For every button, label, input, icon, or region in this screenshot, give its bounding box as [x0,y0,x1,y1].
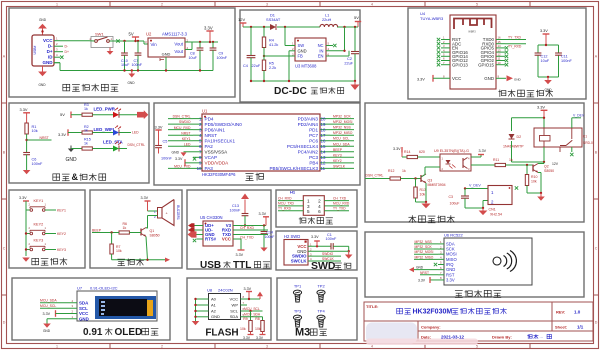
svg-text:3.3V: 3.3V [311,235,319,239]
svg-text:IN: IN [319,48,323,53]
svg-text:K1: K1 [583,135,587,139]
svg-text:MP32_MOSI: MP32_MOSI [415,250,434,254]
svg-text:...: ... [540,334,543,339]
power 3.3V usb-ttl [259,212,270,226]
svg-text:100nF: 100nF [326,237,337,241]
optocoupler U9 EL357N [434,149,471,171]
svg-text:10k: 10k [32,129,38,133]
ground arrow flash [192,321,200,325]
power port arrow 5V_DEV [137,110,148,119]
svg-text:U7: U7 [77,286,83,291]
test point TP2 [317,284,326,302]
wire R14 to opto [418,156,441,158]
svg-text:SDA: SDA [230,314,239,319]
svg-text:MP32_MISO: MP32_MISO [415,255,434,259]
net label DSN_CTRL [119,143,145,149]
power 5V output [354,15,361,27]
svg-text:HK32F030MF4P6: HK32F030MF4P6 [202,172,236,177]
svg-text:M3: M3 [295,326,310,338]
power 3.3V U5 VCC [233,239,245,257]
svg-text:SWCLK: SWCLK [291,259,308,264]
svg-text:VSS/VSSA: VSS/VSSA [205,149,229,154]
svg-text:SWDIO: SWDIO [179,120,191,124]
key input box [9,190,85,268]
reset & led box [9,103,149,183]
wire V3 rail [233,224,266,226]
svg-text:3.3V: 3.3V [43,312,51,316]
svg-text:H1: H1 [290,190,296,195]
power 3.3V buzzer [141,196,151,201]
header H1 [290,190,324,216]
svg-text:R8: R8 [255,317,260,321]
svg-text:LED_WIFI: LED_WIFI [94,127,115,132]
svg-text:100uF: 100uF [450,202,460,206]
svg-text:6: 6 [318,209,321,214]
svg-text:5V: 5V [60,112,65,117]
net label MP32_MOSI from U1 pin 19 [330,120,354,124]
capacitor C7 [132,41,143,71]
svg-text:DSN_CTRL: DSN_CTRL [128,143,146,147]
svg-text:MCU_TXD: MCU_TXD [278,202,295,206]
wire Q1 collector [146,227,148,230]
svg-text:R10: R10 [531,175,537,179]
svg-text:3.3V: 3.3V [537,105,545,110]
svg-text:GND: GND [43,60,54,65]
caption tuya module [498,90,553,97]
svg-text:D+: D+ [47,49,53,54]
svg-text:1k: 1k [402,169,406,173]
svg-text:TY_RXD: TY_RXD [278,206,292,210]
swd box [276,231,357,270]
net label CH_TXD [233,235,268,240]
svg-text:A0: A0 [211,296,217,301]
ground rail buzzer [112,237,165,261]
svg-text:KEY1: KEY1 [182,137,191,141]
svg-text:10k: 10k [255,327,261,331]
led row2 power 3.3V [58,129,82,137]
svg-text:AMS1117-3.3: AMS1117-3.3 [162,32,188,37]
no-connect X on VCAP [193,157,196,160]
inductor L1 22uH [320,13,338,28]
ground port U5 GND pin [188,231,204,237]
net label MCU_SCL oled [40,304,77,308]
chip U4 body [450,15,496,89]
svg-text:GND: GND [162,52,171,57]
svg-text:2: 2 [318,199,321,204]
svg-text:10uF: 10uF [121,63,130,67]
net label SWCLK swd [308,257,341,261]
svg-text:WP: WP [232,302,239,307]
U4 right pins [478,36,508,81]
test point TP1 [293,284,302,302]
ground under C14 [260,248,267,252]
net label CH_TXD right [324,196,349,200]
net label TY_TXD right [324,206,349,210]
svg-text:22uF: 22uF [252,64,261,68]
power 3.3V reset [20,107,31,123]
ground arrow dcdc [350,81,359,90]
title block frame [364,302,593,341]
ground under C6 [23,170,31,174]
net label MCU_RXD right [324,202,350,206]
svg-text:Q1: Q1 [150,229,155,233]
port D- label [65,45,69,49]
svg-text:MP32_SCK: MP32_SCK [333,115,351,119]
net label SWDIO to U1 pin 2 [168,120,193,124]
power 3.3V to VCC pin [417,75,450,82]
net label MCU_SCL from U1 pin 16 [330,137,354,141]
date row [421,334,552,340]
svg-text:100nF: 100nF [561,59,572,63]
caption buzzer [117,258,143,265]
svg-text:3.3V: 3.3V [540,29,548,33]
svg-text:3.3V: 3.3V [256,336,264,340]
svg-text:3.3V: 3.3V [393,147,401,151]
junction dots on 5V rail [123,40,139,42]
ground keys [22,258,30,262]
svg-text:LED: LED [132,131,139,135]
relay K1 SRD-03 [534,128,593,152]
svg-text:USB: USB [200,260,221,271]
12V rail wire [243,26,355,28]
power switch circuit box [9,8,235,97]
net label MP32_MOSI card reader [414,250,438,254]
svg-text:SW: SW [298,43,305,48]
caption power switch circuit [63,84,119,92]
svg-text:LED_PWR: LED_PWR [94,106,116,111]
caption DC-DC boost [274,86,344,97]
svg-text:100nF: 100nF [265,235,275,239]
capacitor C3 100uF [449,189,470,209]
svg-text:5V: 5V [354,15,359,20]
wire U2 Vout join [185,42,218,50]
svg-text:1N4148WTP: 1N4148WTP [503,145,524,149]
capacitor C1 100nF [326,233,350,253]
bottom ground rail dcdc [250,80,356,82]
svg-text:NC: NC [318,43,324,48]
net label MP32_NSS from U1 pin 18 [330,126,354,130]
diode D1 SS34AT [266,13,281,31]
net label MCU_RXD to U1 pin 3 [168,126,193,130]
caption reset and indicator [53,172,107,182]
net label KEY2 [57,232,66,236]
svg-text:D-: D- [65,45,69,49]
svg-text:3: 3 [266,2,268,6]
svg-text:TP4: TP4 [317,309,325,314]
power 3.3V cap pair [540,29,549,45]
wire R12 to Q3 base [401,177,422,179]
resistor R15 1k [82,138,92,150]
svg-text:V_DEV: V_DEV [573,114,585,118]
svg-text:3.3V: 3.3V [479,149,487,153]
svg-text:USB#: USB# [33,45,37,54]
svg-text:1: 1 [307,199,310,204]
power 5V [129,32,140,42]
module U7 OLED labels [77,286,118,291]
svg-text:HK32F030M: HK32F030M [413,309,453,316]
wire FB to divider [263,55,295,57]
net label LED_STA [103,139,124,144]
wire EN pin [326,50,349,56]
svg-text:620: 620 [419,150,425,154]
dc-dc boost circuit box [240,10,360,102]
svg-text:MCU_SCL: MCU_SCL [333,137,349,141]
svg-text:R7: R7 [116,245,121,249]
LED green LED_STA [113,142,121,152]
module U4 TUYA-WBR3 labels [420,11,444,21]
svg-text:MP32_NSS: MP32_NSS [333,126,351,130]
svg-text:C6: C6 [32,157,37,161]
svg-text:24C02N: 24C02N [218,288,233,293]
svg-text:GND: GND [39,18,47,22]
capacitor C8 [189,42,204,71]
svg-text:PB4: PB4 [309,161,318,166]
svg-text:R4: R4 [269,39,274,43]
wire C3 to CN1 pin2 and ground [465,201,488,210]
svg-text:KEY1: KEY1 [57,208,66,212]
net label MP32_MISO from U1 pin 17 [330,131,354,135]
svg-text:5: 5 [476,345,478,349]
capacitor C6 [23,153,43,171]
net label V_DEV connector [464,184,488,190]
svg-text:19: 19 [321,122,326,127]
svg-text:TY_TXD: TY_TXD [508,35,522,39]
wire Q3 collector to opto pin2 [421,167,440,177]
wire R15 to LED3 [92,148,113,150]
port D+ label [65,50,69,54]
resistor R9 10k pullup [240,311,252,332]
switch KEY2 [25,222,56,235]
LED blue LED_WIFI [113,126,121,136]
usb-ttl box [187,190,271,269]
svg-text:S8050: S8050 [150,233,160,237]
port D+ usb-ttl [188,223,203,227]
svg-text:GND: GND [514,77,522,81]
net label DSN_CTRL input [365,174,390,179]
svg-text:PD5/SWDIO/AIN0: PD5/SWDIO/AIN0 [205,122,243,127]
svg-text:NRST: NRST [420,271,429,275]
svg-text:C4: C4 [243,64,248,68]
svg-text:TUYA-WBR3: TUYA-WBR3 [420,16,444,21]
svg-text:TY_RXD: TY_RXD [508,45,522,49]
svg-text:PC7: PC7 [309,133,318,138]
net label BEEP [92,229,119,234]
svg-text:3.3V: 3.3V [259,212,267,216]
svg-text:MP32_SCK: MP32_SCK [415,245,433,249]
svg-text:KEY3: KEY3 [34,238,44,242]
svg-text:V_DEV: V_DEV [469,184,481,188]
wire Q2 emitter to ground [527,173,542,195]
svg-text:MP32_MISO: MP32_MISO [333,131,353,135]
svg-text:5V: 5V [129,32,134,37]
svg-text:U8: U8 [207,288,213,293]
svg-text:10: 10 [498,61,502,65]
chip U1 HK32F030MF4P6 [193,109,330,177]
svg-text:10k: 10k [240,327,246,331]
ground arrow right buzzer [165,258,170,263]
svg-text:GND: GND [127,81,135,85]
resistor R1 10k [25,123,38,134]
ground rail flash [194,298,208,321]
power 3.3V opto collector [471,149,487,157]
svg-text:R14: R14 [404,150,410,154]
svg-text:13: 13 [321,155,326,160]
svg-text:U9 EL357N(B)(TA)-G: U9 EL357N(B)(TA)-G [434,149,469,153]
net label LED_PWR [94,106,116,111]
power ground GND top [38,18,47,35]
net label MCU_TXD to U1 pin 10 [168,164,193,168]
svg-text:GND: GND [65,157,77,163]
svg-text:CH_TXD: CH_TXD [240,236,254,240]
svg-text:12V: 12V [552,162,559,166]
svg-text:41.2k: 41.2k [269,43,278,47]
net label CH_RXD [233,226,268,230]
capacitor C2 output [344,27,359,81]
svg-text:20: 20 [321,116,326,121]
junction dot at USB VCC top [41,30,43,32]
capacitor C10 [121,41,130,71]
caption key input [32,258,68,265]
resistor R13 10k [414,179,426,199]
svg-text:3.3V: 3.3V [58,132,66,137]
caption serial debug [299,217,333,224]
no-connect X near CN1 [515,186,518,189]
junction dots 12V rail [250,26,356,28]
svg-text:SDA: SDA [79,300,89,305]
wire USB VCC to SW1 [60,40,89,42]
svg-text:16: 16 [321,139,326,144]
resistor R11 1k [493,158,513,167]
svg-text:MCU_RXD: MCU_RXD [174,126,191,130]
svg-text:NRST: NRST [181,131,190,135]
svg-text:A2: A2 [211,308,217,313]
svg-text:SRD-0: SRD-0 [583,141,593,145]
svg-text:10k: 10k [420,192,426,196]
svg-text:Vout: Vout [174,49,183,54]
net label SWDIO swd [308,252,341,256]
resistor R14 620 [404,150,425,159]
net label MCU_TXD left [278,202,303,206]
net label NRST card reader [420,271,438,275]
resistor R2 1k [82,125,92,134]
svg-text:Vout: Vout [174,41,183,46]
flash box [187,278,271,340]
power 3.3V relay [537,105,547,118]
capacitor C9 [210,42,228,71]
resistor R3 1k [82,103,92,116]
svg-text:MCU_SDA: MCU_SDA [40,299,57,303]
svg-text:R11: R11 [493,158,499,162]
LED red LED_PWR [113,108,121,118]
caption usb to ttl [200,260,270,271]
switch KEY1 [26,199,56,212]
svg-text:1.0: 1.0 [574,310,581,315]
connector CN1 XH2.54 [488,186,512,217]
net label V_DEV relay [572,114,585,128]
svg-text:KEY2: KEY2 [333,159,342,163]
svg-text:PD1: PD1 [309,127,318,132]
buzzer BUZZER1 [148,200,180,226]
wire R3 to LED1 [92,114,113,116]
svg-text:XH2.54: XH2.54 [490,212,502,216]
svg-text:D-: D- [48,44,53,49]
net label KEY1 to U1 pin 5 [168,137,193,141]
USB connector USB1 [32,35,54,66]
caption card reader module [455,290,501,298]
no-connect X under relay contact [570,147,573,156]
censor blob over logo [366,323,478,346]
net label MCU_SCL flash [241,307,263,312]
svg-text:MCU_SCL: MCU_SCL [244,307,260,311]
svg-text:Sheet:: Sheet: [555,325,567,330]
svg-text:KEY2: KEY2 [34,222,44,226]
svg-text:PA2: PA2 [205,144,214,149]
power 3.3V after U2 [204,26,214,43]
wire R6 to Q1 base [129,232,141,234]
svg-text:3.3V: 3.3V [236,253,244,257]
svg-text:PB5/SWCLK/HSECLK3: PB5/SWCLK/HSECLK3 [269,166,318,171]
svg-text:MCU_SCL: MCU_SCL [40,304,56,308]
capacitor C11 [555,53,572,63]
svg-text:5: 5 [307,209,310,214]
ground under USB [38,66,47,87]
svg-text:GPIO15: GPIO15 [478,62,494,67]
oled module body [77,291,157,321]
svg-text:C: C [3,246,6,250]
svg-text:PA1/HSECLK1: PA1/HSECLK1 [205,138,236,143]
power 3.3V opto [393,147,407,157]
resistor R7 10k [110,233,122,255]
U2 GND tab wire [160,57,166,71]
svg-text:1: 1 [56,2,58,6]
sheet row [555,325,584,330]
net label CH_RXD left [278,196,303,200]
svg-text:BEEP: BEEP [333,148,343,152]
svg-text:DC-DC: DC-DC [274,86,307,97]
pcb antenna trace [454,19,492,34]
svg-text:SCL: SCL [79,306,88,311]
svg-text:C: C [595,246,598,250]
capacitor C14 [261,226,275,248]
port D- usb-ttl [188,228,203,232]
wire WP pin [241,304,248,306]
serial debug box [276,190,357,227]
test point TP3 [293,309,302,327]
svg-text:C14: C14 [267,231,273,235]
ground under Q2 [537,193,545,201]
m3 box [277,278,357,340]
svg-text:10uF: 10uF [189,56,198,60]
svg-text:3.3V: 3.3V [244,287,252,291]
wire LED1 to arrow [119,114,137,116]
svg-text:5: 5 [476,2,478,6]
svg-text:VDD/VDDA: VDD/VDDA [205,161,230,166]
net label MCU_SDA oled [40,299,77,303]
regulator U2 AMS1117-3.3 [145,32,189,58]
wire 3.3V node to D2 and coil [512,117,546,131]
svg-text:TY_TXD: TY_TXD [333,206,346,210]
title text [366,304,507,316]
svg-text:VCC: VCC [43,38,53,43]
svg-text:10uF: 10uF [541,59,550,63]
svg-text:CH_RXD: CH_RXD [240,226,254,230]
svg-text:VCAP: VCAP [205,155,218,160]
ground rail bottom of power box [54,63,213,72]
transistor Q2 S8050 [533,162,559,173]
svg-text:MP32_NSS: MP32_NSS [415,240,433,244]
svg-text:R9: R9 [243,317,248,321]
svg-text:BEEP: BEEP [92,229,102,233]
